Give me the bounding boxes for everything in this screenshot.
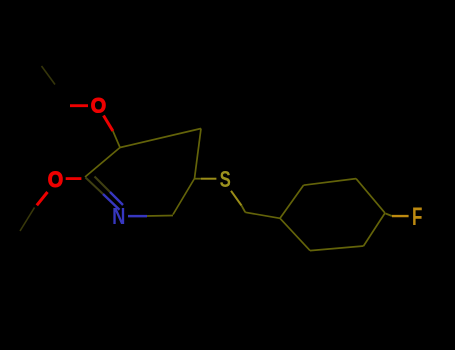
wire C6-N1 bond olive half (146, 215, 173, 218)
wire N1=C2 double bond outer blue half (103, 194, 120, 210)
svg-text:F: F (412, 203, 422, 231)
wire N1=C2 double bond outer olive half (86, 178, 104, 195)
wire CH2-C1' bond (245, 212, 280, 218)
wire C4'-F bond (386, 214, 393, 217)
wire C2'-C3' bond (304, 179, 357, 186)
wire C1'-C2' bond (280, 185, 304, 218)
wire C4'-C5' bond (364, 213, 386, 246)
wire C5'-C6' bond (310, 246, 364, 251)
svg-text:N: N (112, 204, 125, 229)
wire C3'-C4' bond (356, 179, 385, 213)
wire O1-C3 bond red half (104, 116, 113, 132)
wire N1=C2 double bond inner blue half (110, 192, 123, 205)
svg-text:S: S (220, 168, 231, 193)
wire ethyl CH2-CH3 faint (left ethoxy) (20, 208, 35, 232)
wire O2-CH2 bond red diagonal (37, 192, 48, 205)
wire C5-S bond (195, 178, 202, 180)
wire C6-N1 bond blue half (128, 215, 147, 218)
wire C3-C4 bond (120, 129, 201, 148)
wire C6'-C1' bond (280, 218, 310, 250)
wire C4-C5 bond (195, 129, 202, 179)
svg-text:O: O (48, 168, 63, 192)
svg-text:O: O (91, 94, 106, 118)
wire O1-CH2 bond (top ethoxy, red half) (70, 104, 88, 107)
wire O1-C3 bond olive half (113, 131, 120, 148)
wire ethyl CH2-CH3 faint (top ethoxy) (42, 66, 56, 85)
wire C2-C3 bond (85, 148, 120, 178)
wire S-CH2 bond (231, 191, 242, 206)
wire N1=C2 double bond inner olive half (95, 177, 111, 193)
wire O2-C2 bond red half (66, 177, 82, 180)
wire C5-C6 bond (173, 179, 195, 215)
